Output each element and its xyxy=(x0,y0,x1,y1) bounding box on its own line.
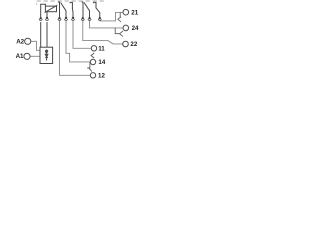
svg-text:24: 24 xyxy=(132,25,139,32)
svg-text:A2: A2 xyxy=(16,39,24,46)
svg-text:12: 12 xyxy=(98,72,105,79)
svg-text:11: 11 xyxy=(98,46,105,53)
svg-text:21: 21 xyxy=(131,9,138,16)
svg-text:22: 22 xyxy=(130,41,137,48)
svg-text:A1: A1 xyxy=(16,53,24,60)
svg-text:14: 14 xyxy=(98,59,105,66)
